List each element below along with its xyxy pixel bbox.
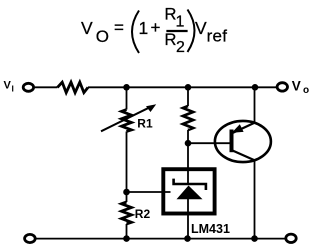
transistor Q1 emitter lead xyxy=(233,123,255,133)
svg-text:V: V xyxy=(4,79,12,91)
svg-text:1: 1 xyxy=(176,14,185,31)
diode zener cathode bar xyxy=(174,179,206,190)
wire input to resistor xyxy=(35,86,58,88)
diode zener triangle xyxy=(177,186,203,200)
svg-text:=: = xyxy=(114,18,124,37)
junction bottom-right xyxy=(251,235,258,242)
svg-text:R1: R1 xyxy=(137,117,153,131)
regulator U1 LM431 box xyxy=(163,169,214,213)
junction top-right xyxy=(252,84,259,91)
node VI terminal xyxy=(23,83,33,91)
resistor R2 xyxy=(122,202,132,224)
arrowhead emitter xyxy=(232,124,244,133)
svg-text:I: I xyxy=(12,84,14,94)
transistor Q1 collector lead xyxy=(233,151,255,161)
arrowhead R1 xyxy=(146,104,156,112)
ground left terminal xyxy=(25,234,36,242)
svg-text:V: V xyxy=(292,79,301,94)
wire bottom rail xyxy=(36,238,285,240)
ground right terminal xyxy=(286,234,296,242)
svg-text:R2: R2 xyxy=(135,207,151,221)
wire top rail xyxy=(88,86,276,88)
junction top-mid xyxy=(185,84,192,91)
junction ref node xyxy=(123,189,130,196)
svg-text:O: O xyxy=(96,27,109,46)
wire middle column upper xyxy=(187,87,189,106)
junction base node xyxy=(185,140,192,147)
formula VO = (1 + R1/R2) Vref xyxy=(81,6,227,56)
resistor bias xyxy=(183,106,193,130)
transistor Q1 base bar xyxy=(230,130,234,153)
wire middle column to LM431 xyxy=(187,130,189,184)
svg-text:o: o xyxy=(303,85,309,96)
wire left column lower xyxy=(126,224,128,239)
svg-text:ref: ref xyxy=(207,27,228,46)
junction bottom-left xyxy=(123,235,130,242)
wire left column upper xyxy=(126,87,128,109)
svg-text:LM431: LM431 xyxy=(191,222,230,236)
svg-text:V: V xyxy=(81,18,93,38)
transistor Q1 body xyxy=(215,121,271,162)
svg-text:2: 2 xyxy=(176,39,185,56)
wire emitter to top rail xyxy=(254,87,256,123)
wire ref xyxy=(127,191,171,193)
wire LM431 anode down xyxy=(187,199,189,239)
label VI xyxy=(4,79,14,93)
junction bottom-mid xyxy=(184,235,191,242)
wire left column middle xyxy=(126,132,128,203)
label VO xyxy=(292,79,309,96)
svg-text:V: V xyxy=(195,18,207,38)
svg-text:+: + xyxy=(151,18,161,37)
node VO terminal xyxy=(277,83,287,91)
resistor series input xyxy=(57,82,88,92)
svg-text:R: R xyxy=(165,31,177,49)
resistor R1 (variable) xyxy=(122,110,132,132)
wire base xyxy=(188,142,230,144)
wire R1 wiper arrow xyxy=(101,107,151,132)
junction top-left xyxy=(123,84,130,91)
svg-text:1: 1 xyxy=(139,18,149,38)
wire collector to bottom rail xyxy=(254,160,256,239)
